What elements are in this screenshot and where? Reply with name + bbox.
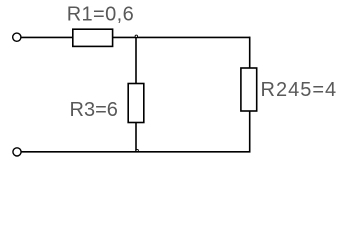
wire (R3 to bottom wire) <box>135 123 137 152</box>
svg-text:R3=6: R3=6 <box>70 99 118 121</box>
svg-text:R245=4: R245=4 <box>261 79 338 101</box>
node A (junction dot top) <box>135 35 137 37</box>
wire (top-right corner down to R245) <box>249 37 251 68</box>
resistor R3 <box>128 84 144 123</box>
wire (junction down to R3) <box>135 37 137 83</box>
wire (R1 to top-right corner) <box>113 36 250 38</box>
wire (R245 down to bottom-right corner) <box>249 111 251 152</box>
resistor R1 <box>73 29 113 46</box>
terminal (top-left input) <box>13 33 21 41</box>
wire (terminal to R1) <box>21 36 73 38</box>
terminal (bottom-left) <box>13 148 21 156</box>
node B (junction dot bottom) <box>136 149 138 151</box>
resistor R245 <box>241 68 257 111</box>
wire (bottom rail) <box>22 151 251 153</box>
svg-text:R1=0,6: R1=0,6 <box>67 4 134 26</box>
